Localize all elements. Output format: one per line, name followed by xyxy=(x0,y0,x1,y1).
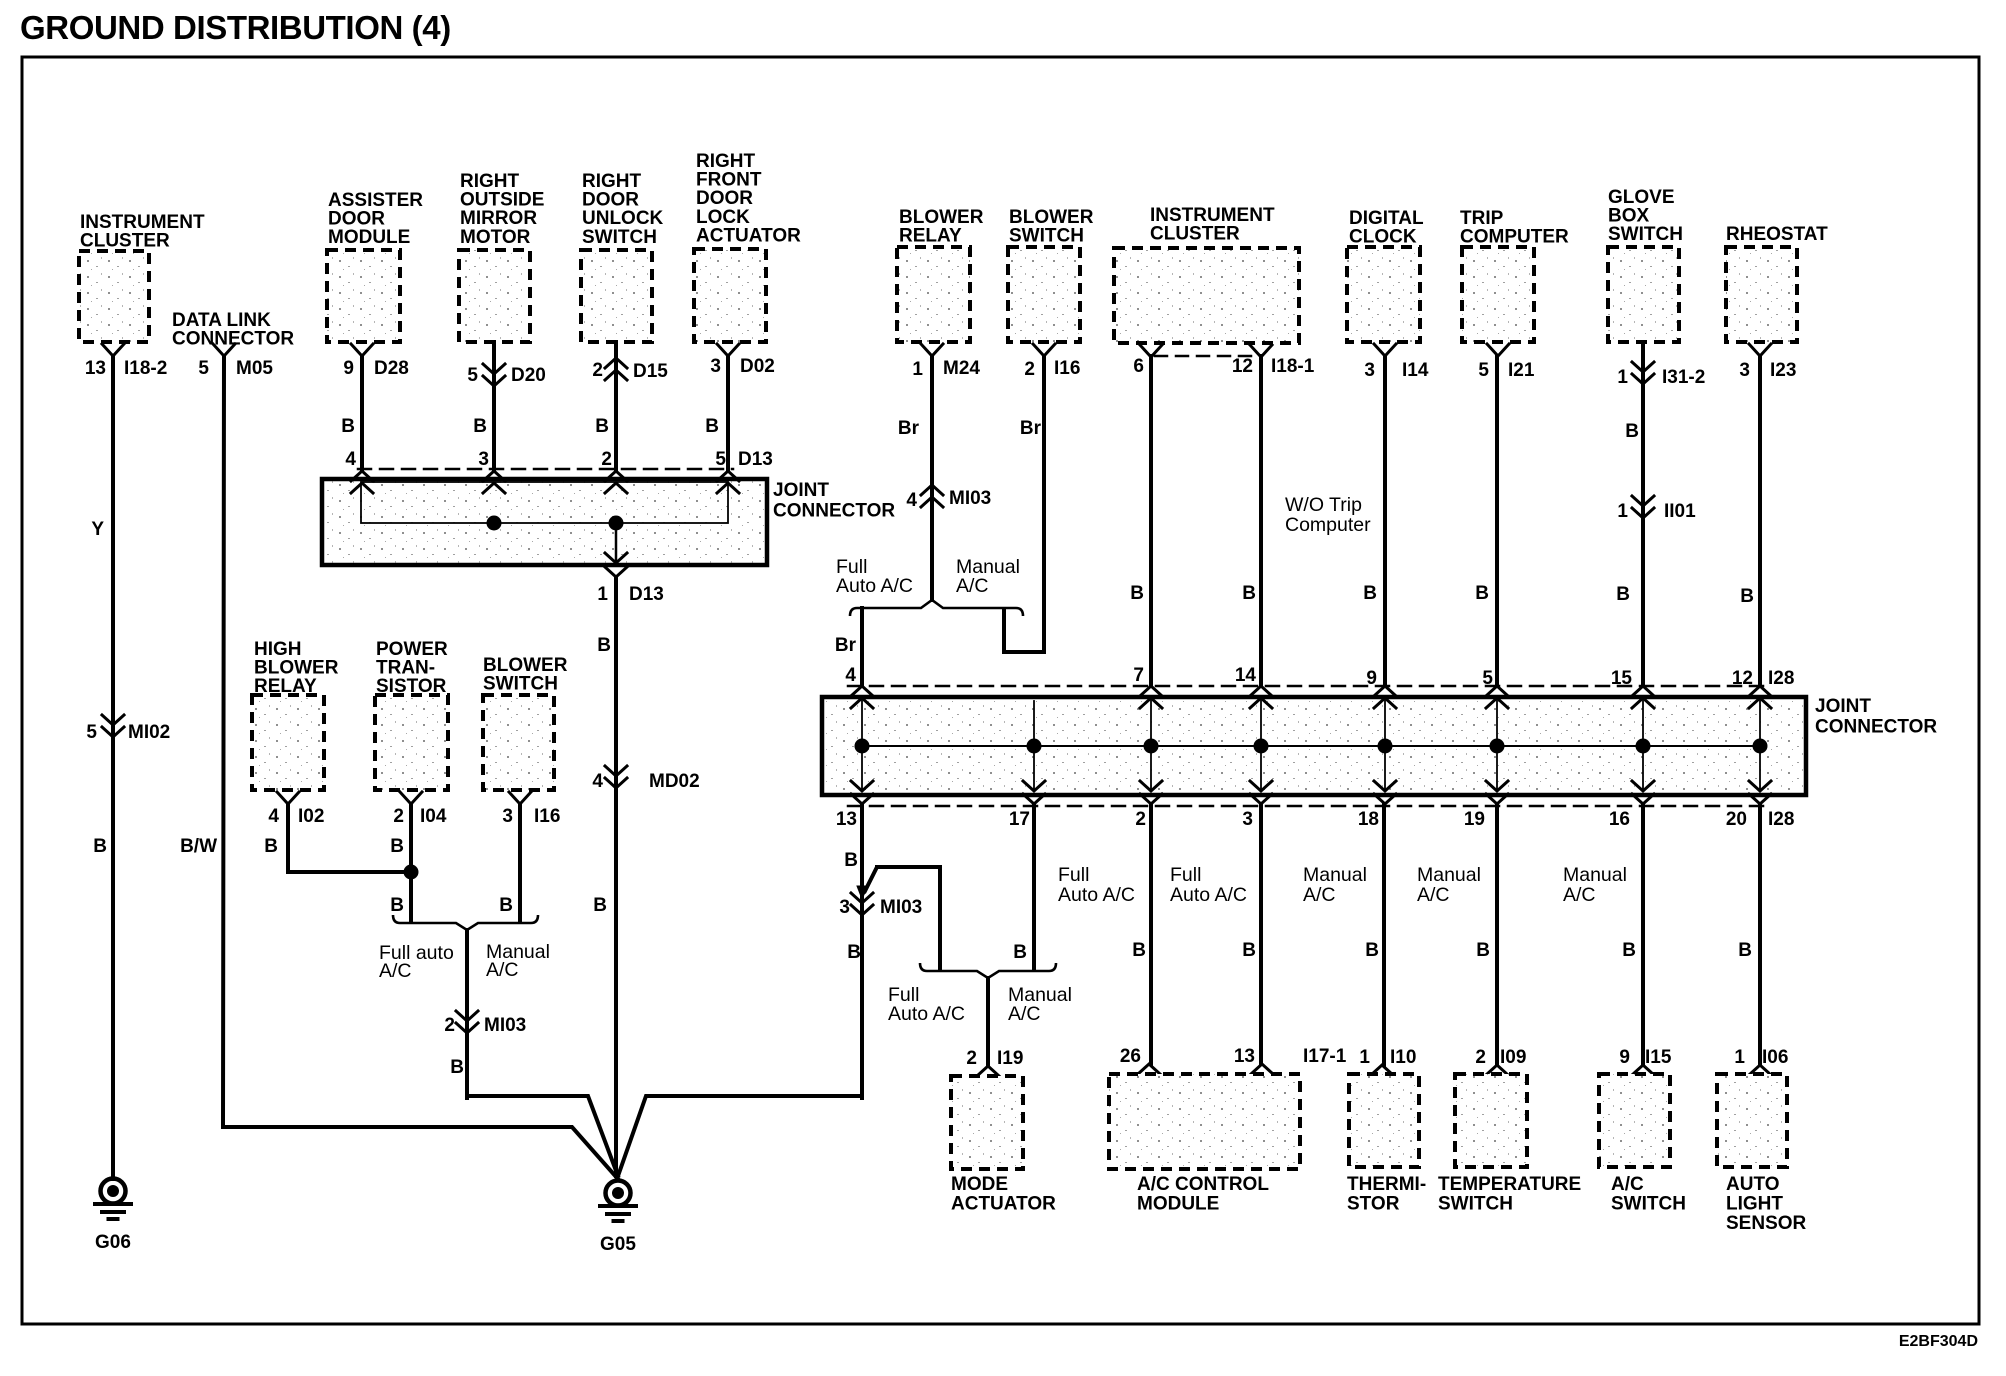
svg-text:B/W: B/W xyxy=(180,836,217,857)
component box TEMPERATURE SWITCH xyxy=(1438,1074,1581,1215)
pin fork 3 I23 xyxy=(1739,344,1796,381)
svg-text:COMPUTER: COMPUTER xyxy=(1460,227,1569,248)
svg-text:Y: Y xyxy=(91,519,104,540)
joint connector (right) label xyxy=(1815,696,1937,738)
svg-text:MODE: MODE xyxy=(951,1174,1008,1195)
wire IC pin 6 to joint pin 7 xyxy=(1149,356,1153,686)
joint connector (left) body xyxy=(322,479,767,565)
wire color B (pin20) xyxy=(1738,940,1752,961)
svg-text:B: B xyxy=(1132,940,1146,961)
svg-text:SWITCH: SWITCH xyxy=(1009,226,1084,247)
wire color B (MI03-2) xyxy=(450,1057,464,1078)
joint connector (left) entry arrows xyxy=(351,471,739,493)
svg-text:B: B xyxy=(1242,583,1256,604)
svg-text:CONNECTOR: CONNECTOR xyxy=(773,501,895,522)
right joint connector pin 14 top xyxy=(1235,665,1257,686)
svg-text:6: 6 xyxy=(1133,356,1144,377)
svg-text:I16: I16 xyxy=(1054,358,1080,379)
svg-text:SWITCH: SWITCH xyxy=(483,674,558,695)
svg-text:B: B xyxy=(1475,583,1489,604)
wire I02 to junction xyxy=(288,804,411,872)
svg-text:19: 19 xyxy=(1464,809,1485,830)
svg-text:D20: D20 xyxy=(511,365,546,386)
svg-text:9: 9 xyxy=(1619,1047,1630,1068)
alternative merge (full auto / manual A/C) xyxy=(393,915,538,930)
wire joint pin 2 to AC control module xyxy=(1149,804,1153,1064)
svg-text:B: B xyxy=(597,635,611,656)
in-line connector MD02 pin 4 xyxy=(592,766,699,792)
wire color B (II01) xyxy=(1616,584,1630,605)
wire merge to mode actuator xyxy=(986,978,990,1066)
wire M24 down xyxy=(930,356,934,600)
svg-text:SENSOR: SENSOR xyxy=(1726,1213,1807,1234)
svg-text:MI03: MI03 xyxy=(484,1015,526,1036)
svg-text:B: B xyxy=(1013,942,1027,963)
component box RIGHT FRONT DOOR LOCK ACTUATOR xyxy=(694,151,801,342)
wire color B (pin17) xyxy=(1013,942,1027,963)
svg-text:I10: I10 xyxy=(1390,1047,1416,1068)
svg-text:B: B xyxy=(390,836,404,857)
wire color B (I14) xyxy=(1363,583,1377,604)
wire D20 to joint connector pin 3 xyxy=(492,342,496,470)
pin fork 26 xyxy=(1120,1046,1160,1074)
wire color B (pin16) xyxy=(1622,940,1636,961)
svg-text:5: 5 xyxy=(86,722,97,743)
joint connector pin 5 / D13 top xyxy=(715,449,772,470)
in-line connector MI03 pin 3 xyxy=(839,893,922,918)
joint connector pin 4 top xyxy=(345,449,356,470)
svg-text:B: B xyxy=(1130,583,1144,604)
svg-text:B: B xyxy=(1365,940,1379,961)
wire color B (I31-2) xyxy=(1625,421,1639,442)
svg-text:Computer: Computer xyxy=(1285,514,1371,536)
wire M05 to G05 xyxy=(223,356,618,1179)
svg-text:Br: Br xyxy=(835,635,857,656)
right joint connector pin 15 top xyxy=(1611,668,1633,689)
wire I31-2 down xyxy=(1641,342,1645,686)
label Manual A/C (mode) xyxy=(1008,984,1072,1025)
right joint connector pin 9 top xyxy=(1366,668,1377,689)
svg-text:M24: M24 xyxy=(943,358,980,379)
svg-text:CLOCK: CLOCK xyxy=(1349,227,1417,248)
svg-text:B: B xyxy=(847,942,861,963)
svg-text:Br: Br xyxy=(898,418,920,439)
svg-text:13: 13 xyxy=(85,358,106,379)
svg-text:7: 7 xyxy=(1133,665,1144,686)
component box GLOVE BOX SWITCH xyxy=(1608,187,1683,342)
pin fork 2 I16 (top) xyxy=(1024,344,1080,380)
svg-text:B: B xyxy=(1363,583,1377,604)
svg-text:A/C: A/C xyxy=(956,575,989,597)
component box RIGHT OUTSIDE MIRROR MOTOR xyxy=(459,171,544,342)
wire color B (I02) xyxy=(264,836,278,857)
svg-text:2: 2 xyxy=(1475,1047,1486,1068)
branch to mode actuator fork xyxy=(857,867,940,969)
wire D13 to G05 xyxy=(614,578,618,1176)
wire color B (D28) xyxy=(341,416,355,437)
wire color B (D20) xyxy=(473,416,487,437)
wire full-auto branch to joint connector pin 4 xyxy=(860,608,864,686)
svg-text:I04: I04 xyxy=(420,806,447,827)
pin fork 3 I14 xyxy=(1364,344,1428,381)
label Manual A/C (pin19) xyxy=(1417,864,1481,906)
right joint connector pin 5 top xyxy=(1482,668,1493,689)
wire color B (D15) xyxy=(595,416,609,437)
svg-text:I23: I23 xyxy=(1770,360,1796,381)
svg-text:4: 4 xyxy=(345,449,356,470)
svg-text:I02: I02 xyxy=(298,806,324,827)
svg-text:26: 26 xyxy=(1120,1046,1141,1067)
wire color B (pin19) xyxy=(1476,940,1490,961)
wire joint pin 18 to thermistor xyxy=(1382,804,1386,1065)
wire color B (left) xyxy=(93,836,107,857)
svg-text:B: B xyxy=(1740,586,1754,607)
svg-text:THERMI-: THERMI- xyxy=(1347,1174,1426,1195)
component box THERMISTOR xyxy=(1347,1074,1426,1215)
wire joint pin 16 to A/C switch xyxy=(1641,804,1645,1065)
label Manual A/C (pin18) xyxy=(1303,864,1367,906)
wire merge to MI03 pin 2 xyxy=(465,930,469,1098)
svg-text:SWITCH: SWITCH xyxy=(1611,1194,1686,1215)
svg-text:ACTUATOR: ACTUATOR xyxy=(951,1194,1056,1215)
svg-text:G05: G05 xyxy=(600,1234,636,1255)
label W/O Trip Computer xyxy=(1285,494,1371,536)
junction dot I02/I04 xyxy=(404,865,419,880)
svg-text:E2BF304D: E2BF304D xyxy=(1899,1333,1978,1350)
svg-text:A/C: A/C xyxy=(1008,1003,1041,1025)
svg-text:9: 9 xyxy=(343,358,354,379)
svg-text:2: 2 xyxy=(592,360,603,381)
svg-text:20: 20 xyxy=(1726,809,1747,830)
svg-text:Full: Full xyxy=(1170,864,1201,886)
svg-text:B: B xyxy=(341,416,355,437)
svg-text:B: B xyxy=(1625,421,1639,442)
component box A/C CONTROL MODULE xyxy=(1109,1074,1300,1215)
svg-text:CONNECTOR: CONNECTOR xyxy=(1815,717,1937,738)
svg-text:3: 3 xyxy=(1364,360,1375,381)
svg-text:B: B xyxy=(450,1057,464,1078)
svg-text:14: 14 xyxy=(1235,665,1257,686)
label Full Auto A/C (relay) xyxy=(836,556,913,597)
svg-text:MI03: MI03 xyxy=(880,897,922,918)
svg-text:1: 1 xyxy=(1734,1047,1745,1068)
svg-text:D02: D02 xyxy=(740,356,775,377)
svg-text:Manual: Manual xyxy=(1417,864,1481,886)
svg-text:5: 5 xyxy=(1478,360,1489,381)
pin fork 13 I18-2 xyxy=(85,344,167,379)
svg-text:I18-1: I18-1 xyxy=(1271,356,1315,377)
in-line connector MI02 pin 5 xyxy=(86,715,170,743)
component box BLOWER SWITCH (top) xyxy=(1008,207,1094,342)
wire color B (I16) xyxy=(499,895,513,916)
svg-text:I15: I15 xyxy=(1645,1047,1672,1068)
svg-text:MI03: MI03 xyxy=(949,488,991,509)
in-line connector D15 pin 2 xyxy=(592,358,668,382)
svg-text:B: B xyxy=(264,836,278,857)
svg-text:I18-2: I18-2 xyxy=(124,358,167,379)
svg-text:A/C: A/C xyxy=(379,960,412,982)
svg-text:17: 17 xyxy=(1009,809,1030,830)
svg-text:4: 4 xyxy=(845,665,856,686)
svg-text:3: 3 xyxy=(1739,360,1750,381)
svg-text:RHEOSTAT: RHEOSTAT xyxy=(1726,224,1828,245)
svg-text:II01: II01 xyxy=(1664,501,1696,522)
component box BLOWER SWITCH (I16) xyxy=(483,655,568,790)
wire color B (pin13) xyxy=(844,850,858,871)
svg-text:B: B xyxy=(1476,940,1490,961)
svg-text:B: B xyxy=(595,416,609,437)
joint connector (left) label xyxy=(773,480,895,522)
wire joint pin 3 to AC control module xyxy=(1259,804,1263,1064)
figure code E2BF304D xyxy=(1899,1333,1978,1350)
svg-text:MI02: MI02 xyxy=(128,722,170,743)
svg-text:AUTO: AUTO xyxy=(1726,1174,1779,1195)
alternative merge (mode actuator) xyxy=(920,963,1056,978)
svg-text:JOINT: JOINT xyxy=(1815,696,1871,717)
svg-text:SWITCH: SWITCH xyxy=(1438,1194,1513,1215)
pin fork 1 M24 xyxy=(912,344,980,380)
joint connector (right) entry arrows xyxy=(851,686,1771,708)
wire color B (I23) xyxy=(1740,586,1754,607)
svg-text:13: 13 xyxy=(836,809,857,830)
wire color Br (branch) xyxy=(835,635,857,656)
component box TRIP COMPUTER xyxy=(1460,208,1569,342)
svg-text:D13: D13 xyxy=(738,449,773,470)
pin fork 3 I16 xyxy=(502,792,560,827)
svg-text:W/O Trip: W/O Trip xyxy=(1285,494,1362,516)
svg-text:GROUND DISTRIBUTION (4): GROUND DISTRIBUTION (4) xyxy=(20,9,451,46)
pin fork 2 I04 xyxy=(393,792,446,827)
joint connector (right) body xyxy=(822,697,1806,795)
wire color B (I04 upper) xyxy=(390,836,404,857)
joint connector (left) dashed pin line xyxy=(358,468,733,471)
component box POWER TRANSISTOR xyxy=(375,639,448,790)
svg-text:D28: D28 xyxy=(374,358,409,379)
svg-text:A/C: A/C xyxy=(486,959,519,981)
svg-text:4: 4 xyxy=(592,771,603,792)
svg-text:Manual: Manual xyxy=(1563,864,1627,886)
svg-text:MD02: MD02 xyxy=(649,771,700,792)
svg-text:A/C: A/C xyxy=(1417,884,1450,906)
wire color B (pin6) xyxy=(1130,583,1144,604)
component box A/C SWITCH xyxy=(1599,1074,1686,1215)
svg-text:Manual: Manual xyxy=(1303,864,1367,886)
svg-text:2: 2 xyxy=(966,1048,977,1069)
joint connector pin 3 top xyxy=(478,449,489,470)
svg-text:1: 1 xyxy=(1617,501,1628,522)
svg-text:I06: I06 xyxy=(1762,1047,1788,1068)
component box ASSISTER DOOR MODULE xyxy=(327,190,423,342)
svg-text:Auto A/C: Auto A/C xyxy=(1170,884,1247,906)
svg-text:B: B xyxy=(593,895,607,916)
component box INSTRUMENT CLUSTER (I18-2) xyxy=(79,212,205,342)
svg-text:TEMPERATURE: TEMPERATURE xyxy=(1438,1174,1581,1195)
svg-text:D15: D15 xyxy=(633,361,668,382)
wire color B (MD02) xyxy=(593,895,607,916)
svg-text:B: B xyxy=(705,416,719,437)
svg-text:B: B xyxy=(499,895,513,916)
svg-text:4: 4 xyxy=(268,806,279,827)
wire MI03-3 to G05 xyxy=(618,1096,862,1176)
wire manual branch to blower switch wire xyxy=(1004,610,1044,652)
wire color B (pin18) xyxy=(1365,940,1379,961)
wire color B (pin2) xyxy=(1132,940,1146,961)
component DATA LINK CONNECTOR label xyxy=(172,310,294,350)
pin fork 2 I09 xyxy=(1475,1047,1526,1075)
svg-text:16: 16 xyxy=(1609,809,1630,830)
svg-text:I17-1: I17-1 xyxy=(1303,1046,1347,1067)
svg-text:1: 1 xyxy=(912,359,923,380)
component box MODE ACTUATOR xyxy=(951,1076,1056,1215)
svg-text:2: 2 xyxy=(601,449,612,470)
label Full Auto A/C (pin2) xyxy=(1058,864,1135,906)
svg-text:CLUSTER: CLUSTER xyxy=(1150,224,1240,245)
wire joint pin 20 to auto light sensor xyxy=(1758,804,1762,1065)
svg-text:STOR: STOR xyxy=(1347,1194,1400,1215)
component box DIGITAL CLOCK xyxy=(1347,208,1424,342)
svg-text:I28: I28 xyxy=(1768,809,1794,830)
svg-text:Auto A/C: Auto A/C xyxy=(888,1003,965,1025)
svg-text:B: B xyxy=(1738,940,1752,961)
wire joint pin 19 to temperature switch xyxy=(1495,804,1499,1065)
label Manual A/C xyxy=(486,941,550,981)
wire D15 to joint connector pin 2 xyxy=(614,342,618,470)
svg-text:A/C CONTROL: A/C CONTROL xyxy=(1137,1174,1269,1195)
svg-text:B: B xyxy=(93,836,107,857)
svg-text:3: 3 xyxy=(478,449,489,470)
joint connector (right) exit arrows xyxy=(851,781,1771,804)
component box HIGH BLOWER RELAY xyxy=(252,639,339,790)
wire color B (D13) xyxy=(597,635,611,656)
svg-text:I19: I19 xyxy=(997,1048,1023,1069)
svg-text:CLUSTER: CLUSTER xyxy=(80,231,170,252)
svg-text:B: B xyxy=(1616,584,1630,605)
svg-text:3: 3 xyxy=(1242,809,1253,830)
svg-text:2: 2 xyxy=(1024,359,1035,380)
svg-text:5: 5 xyxy=(715,449,726,470)
svg-text:SWITCH: SWITCH xyxy=(582,227,657,248)
svg-text:ACTUATOR: ACTUATOR xyxy=(696,225,801,246)
pin fork 13 I17-1 xyxy=(1234,1046,1347,1074)
pin fork 9 I15 xyxy=(1619,1047,1671,1075)
wire color Br (I16) xyxy=(1020,418,1042,439)
svg-text:Auto A/C: Auto A/C xyxy=(836,575,913,597)
svg-text:I31-2: I31-2 xyxy=(1662,367,1705,388)
ground G06 xyxy=(95,1179,131,1254)
svg-text:MODULE: MODULE xyxy=(328,227,410,248)
label Manual A/C (pin16) xyxy=(1563,864,1627,906)
svg-text:I16: I16 xyxy=(534,806,560,827)
svg-text:G06: G06 xyxy=(95,1232,131,1253)
svg-text:B: B xyxy=(1242,940,1256,961)
wire color Y xyxy=(91,519,104,540)
svg-text:LIGHT: LIGHT xyxy=(1726,1194,1783,1215)
svg-text:2: 2 xyxy=(393,806,404,827)
wire joint pin 17 down xyxy=(1032,804,1036,969)
svg-text:Auto A/C: Auto A/C xyxy=(1058,884,1135,906)
label Full Auto A/C (pin3) xyxy=(1170,864,1247,906)
wire I16 to merge xyxy=(518,804,522,922)
svg-text:12: 12 xyxy=(1232,356,1253,377)
label Manual A/C (relay) xyxy=(956,556,1020,597)
in-line connector MI03 pin 4 xyxy=(906,485,991,511)
svg-text:3: 3 xyxy=(502,806,513,827)
svg-text:B: B xyxy=(390,895,404,916)
svg-text:13: 13 xyxy=(1234,1046,1255,1067)
svg-text:2: 2 xyxy=(444,1015,455,1036)
svg-text:I28: I28 xyxy=(1768,668,1794,689)
pin fork 5 M05 xyxy=(198,344,273,379)
joint connector (left) output arrow pin 1 D13 xyxy=(597,523,663,605)
wire I04 to merge xyxy=(409,804,413,922)
component box RIGHT DOOR UNLOCK SWITCH xyxy=(581,171,664,342)
pin fork 1 I06 xyxy=(1734,1047,1788,1075)
joint connector (right) dashed pin lines xyxy=(848,686,1766,806)
svg-text:I21: I21 xyxy=(1508,360,1535,381)
right joint connector pin 7 top xyxy=(1133,665,1144,686)
svg-text:3: 3 xyxy=(839,897,850,918)
wire I16 top down xyxy=(1042,356,1046,652)
svg-text:4: 4 xyxy=(906,490,917,511)
component box RHEOSTAT xyxy=(1726,224,1828,342)
wire MI03-2 to G05 xyxy=(467,1096,618,1176)
component box INSTRUMENT CLUSTER (I18-1) xyxy=(1114,205,1299,343)
pin fork 4 I02 xyxy=(268,792,324,827)
svg-text:JOINT: JOINT xyxy=(773,480,829,501)
joint connector pin 2 top xyxy=(601,449,612,470)
svg-text:B: B xyxy=(473,416,487,437)
component box BLOWER RELAY xyxy=(897,207,984,342)
svg-text:D13: D13 xyxy=(629,584,664,605)
svg-text:A/C: A/C xyxy=(1611,1174,1644,1195)
wire I23 to joint pin 12 xyxy=(1758,356,1762,686)
svg-text:1: 1 xyxy=(597,584,608,605)
alternative merge at blower relay xyxy=(850,600,1023,616)
wire I21 to joint pin 5 xyxy=(1495,356,1499,686)
svg-text:MOTOR: MOTOR xyxy=(460,227,531,248)
wire color Br (M24) xyxy=(898,418,920,439)
label Full auto A/C xyxy=(379,942,454,982)
wire D28 to joint connector pin 4 xyxy=(360,356,364,470)
wire I14 to joint pin 9 xyxy=(1383,356,1387,686)
wire joint pin 13 down xyxy=(860,804,864,1098)
svg-text:5: 5 xyxy=(198,358,209,379)
component box AUTO LIGHT SENSOR xyxy=(1717,1074,1807,1234)
label Full Auto A/C (mode) xyxy=(888,984,965,1025)
bottom pin labels of right joint connector xyxy=(836,809,1795,830)
svg-text:M05: M05 xyxy=(236,358,273,379)
svg-text:MODULE: MODULE xyxy=(1137,1194,1219,1215)
pin fork 5 I21 xyxy=(1478,344,1534,381)
svg-text:2: 2 xyxy=(1135,809,1146,830)
wire color B/W xyxy=(180,836,217,857)
wire IC pin 12 to joint pin 14 xyxy=(1259,356,1263,686)
wire D02 to joint connector pin 5 xyxy=(726,356,730,470)
svg-text:Br: Br xyxy=(1020,418,1042,439)
svg-text:Full: Full xyxy=(1058,864,1089,886)
pin fork 9 D28 xyxy=(343,344,408,379)
pin fork 3 D02 xyxy=(710,344,774,377)
svg-text:3: 3 xyxy=(710,356,721,377)
joint connector (right) bus junction dots xyxy=(855,739,1768,754)
svg-text:A/C: A/C xyxy=(1563,884,1596,906)
joint connector (left) bus junction dots xyxy=(487,516,624,531)
svg-text:SWITCH: SWITCH xyxy=(1608,224,1683,245)
in-line connector MI03 pin 2 xyxy=(444,1011,526,1036)
ground G05 xyxy=(600,1181,636,1256)
svg-text:A/C: A/C xyxy=(1303,884,1336,906)
in-line connector D20 pin 5 xyxy=(467,364,545,386)
